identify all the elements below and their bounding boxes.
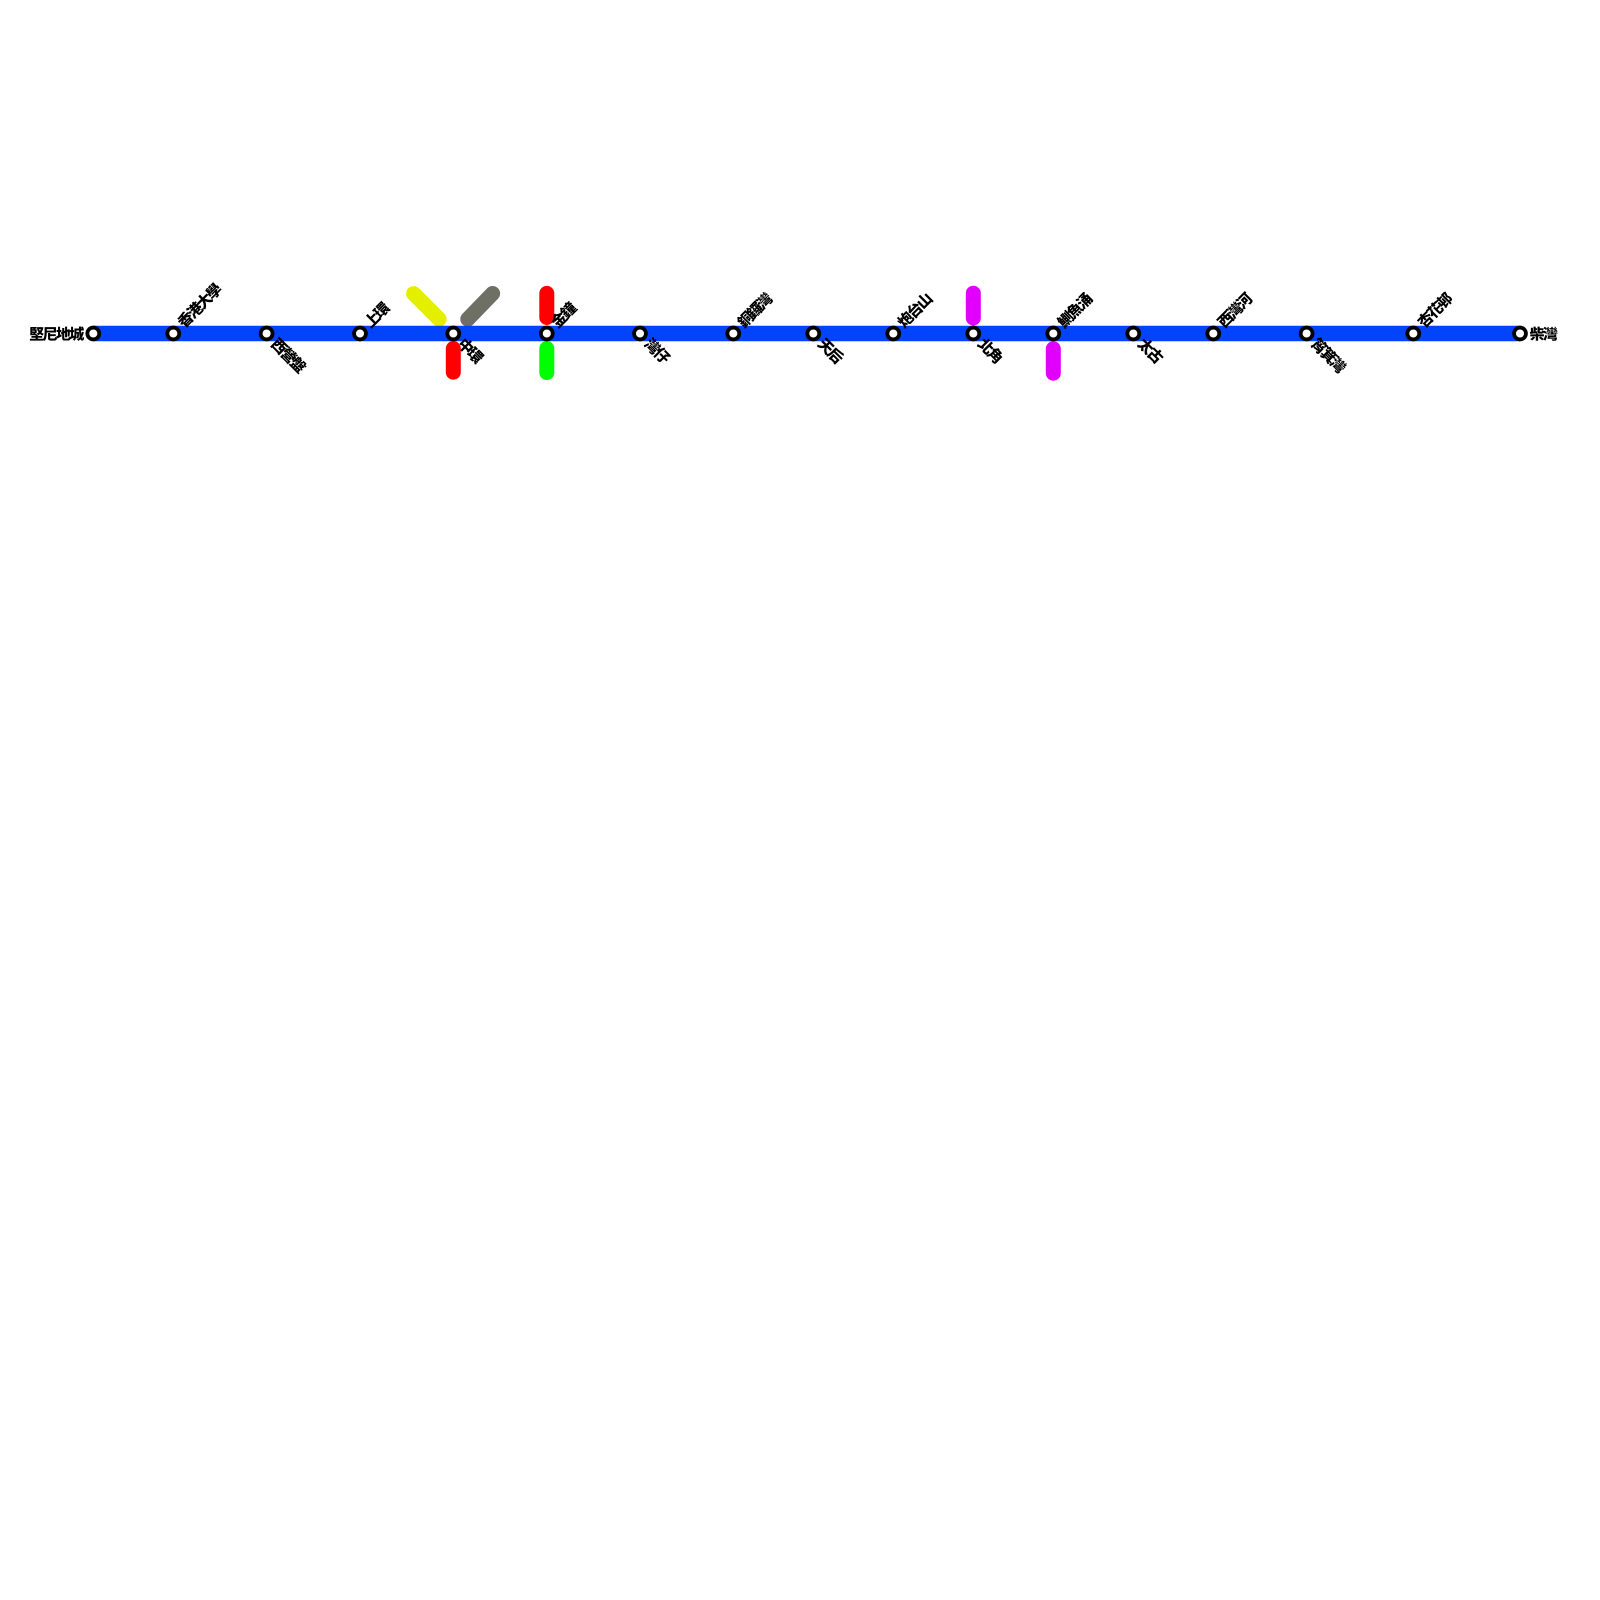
label Causeway Bay 銅鑼灣 <box>735 290 774 329</box>
station Fortress Hill <box>887 328 899 340</box>
label Tin Hau 天后 <box>816 336 846 366</box>
station Tai Koo <box>1127 328 1139 340</box>
station Wan Chai <box>634 328 646 340</box>
label Heng Fa Chuen 杏花邨 <box>1415 290 1454 329</box>
Airport Express stub at Central <box>468 294 493 320</box>
label North Point 北角 <box>976 336 1005 365</box>
label Sai Wan Ho 西灣河 <box>1216 291 1255 330</box>
Island Line (main blue line) <box>93 326 1520 341</box>
station Heng Fa Chuen <box>1407 328 1419 340</box>
South Island line stub below Admiralty <box>539 349 554 373</box>
label Admiralty 金鐘 <box>549 300 579 330</box>
station Causeway Bay <box>727 328 739 340</box>
label Sai Ying Pun 西營盤 <box>270 336 309 375</box>
station Chai Wan <box>1514 328 1526 340</box>
Tseung Kwan O line stub above North Point <box>966 293 981 318</box>
station Sheung Wan <box>354 328 366 340</box>
station Admiralty <box>541 328 553 340</box>
label Tai Koo 太古 <box>1136 336 1166 366</box>
label Kennedy Town 堅尼地城 <box>30 326 84 340</box>
station Shau Kei Wan <box>1301 328 1313 340</box>
station Sai Wan Ho <box>1207 328 1219 340</box>
label Central 中環 <box>457 337 486 366</box>
station Central <box>447 328 459 340</box>
label Chai Wan 柴灣 <box>1530 327 1558 341</box>
label Shau Kei Wan 筲箕灣 <box>1309 336 1348 375</box>
Tsuen Wan line stub above Admiralty <box>539 293 554 317</box>
Tseung Kwan O line stub below Quarry Bay <box>1046 349 1061 373</box>
station Sai Ying Pun <box>261 328 273 340</box>
label Wan Chai 灣仔 <box>643 336 673 366</box>
label HKU 香港大學 <box>175 281 223 329</box>
station Kennedy Town <box>87 328 99 340</box>
station HKU <box>167 328 179 340</box>
station North Point <box>967 328 979 340</box>
label Quarry Bay 鰂魚涌 <box>1055 291 1094 330</box>
station Tin Hau <box>807 328 819 340</box>
station Quarry Bay <box>1047 328 1059 340</box>
label Sheung Wan 上環 <box>362 300 391 329</box>
Tsuen Wan line stub below Central <box>446 349 461 373</box>
Tung Chung line stub at Central <box>414 294 440 320</box>
label Fortress Hill 炮台山 <box>895 291 934 330</box>
